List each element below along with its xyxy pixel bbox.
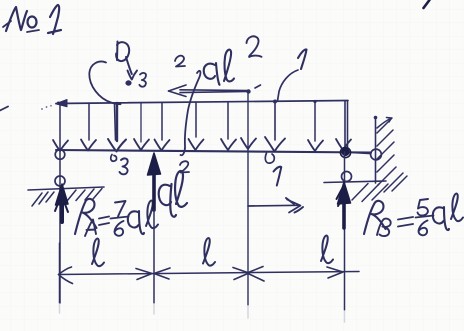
moment label script l (224, 50, 234, 82)
section label 1 above beam (298, 49, 307, 69)
support B lower circle (342, 172, 352, 182)
digit 1 below beam (274, 167, 282, 186)
dim label l span 2 (203, 238, 215, 266)
load arrow 3 (under q, thick) (108, 103, 126, 152)
load arrow 10 (at support B) (336, 101, 351, 150)
dim label l span 1 (92, 239, 104, 267)
section label 3 above beam (139, 73, 146, 87)
section mark 1 below beam (265, 153, 274, 163)
reaction arrow at B (thick, dark) (337, 182, 351, 228)
arrow at top of wall (377, 118, 392, 129)
label R_B = 5/6 ql (364, 194, 463, 237)
label R_A = 7/6 ql (75, 199, 158, 236)
digit 3 below beam (120, 158, 128, 174)
support A vertical line (59, 104, 61, 303)
load arrow 8 (at section 1) (265, 100, 285, 152)
wall hatching (377, 118, 407, 192)
load arrow 2 (81, 103, 96, 151)
support A ground hatching right (67, 189, 102, 202)
curved leader from q to beam (89, 62, 120, 105)
mid support vertical line down (153, 210, 155, 303)
load arrow 1 (left end) (53, 140, 68, 151)
distributed load top line (56, 100, 349, 107)
support A ground line (28, 187, 104, 190)
roller circle at wall (371, 149, 382, 160)
stray pen stroke top right (424, 0, 430, 8)
reaction arrow at A (thick, dark) (55, 184, 68, 222)
section mark 3 below beam (111, 155, 117, 162)
dim arrowheads segment 1 (59, 267, 153, 284)
beam (56, 150, 371, 153)
support B vertical line (344, 152, 346, 310)
support B knot at beam (340, 147, 350, 157)
label q of distributed load (116, 42, 137, 86)
support B ground line (324, 181, 386, 183)
leader from 1 to beam (278, 70, 299, 101)
dimension tick at A going below (59, 243, 61, 303)
section 2 cut curl through moment arrow (181, 71, 201, 155)
beam stub to wall roller (353, 153, 371, 154)
load arrow 4 (134, 103, 149, 151)
moment label q (204, 63, 220, 85)
title No.1 (3, 5, 61, 34)
horizontal arrow x at section 1 (248, 198, 303, 213)
dim arrowhead segment 3 right (327, 267, 343, 278)
section line at mid-span x=248 (241, 92, 256, 305)
stray specks left of load line (41, 105, 52, 110)
dim arrowheads segment 2 (154, 268, 249, 280)
right end vertical of load block (347, 101, 349, 151)
moment label superscript 2 (247, 36, 262, 57)
load arrow 5 (155, 103, 170, 151)
section label 2 below beam (180, 161, 189, 172)
section label 2 above moment (175, 56, 185, 67)
load arrow 7 (221, 102, 236, 150)
load arrow 6 (189, 102, 204, 150)
support A pin circle at beam (55, 150, 65, 160)
right wall line (374, 116, 378, 183)
stray mark left edge (0, 107, 8, 111)
support A ground hatching left (32, 192, 54, 206)
moment arrow ql^2 pointing left (169, 85, 261, 97)
dim crossing arrows at mid tick (247, 267, 264, 282)
faint bottom continuations (60, 304, 345, 322)
dim label l span 3 (321, 236, 333, 264)
label ql (superscript 2) at mid reaction (159, 171, 187, 217)
support A lower circle (55, 176, 65, 186)
dimension line (59, 272, 360, 275)
reaction arrow at mid support (thick, dark) (148, 153, 161, 210)
load arrow 9 (308, 100, 323, 151)
support B ground hatching (352, 184, 388, 202)
